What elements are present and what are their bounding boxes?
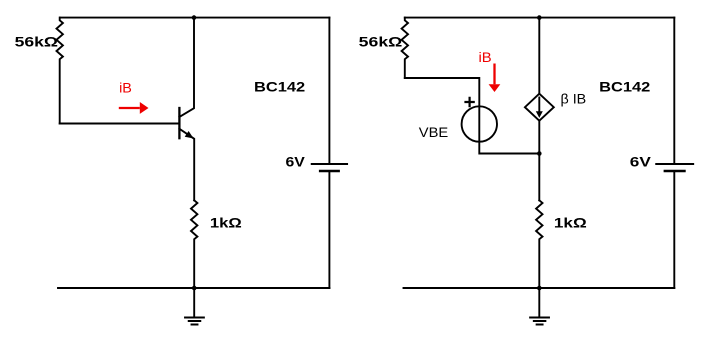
battery V1 bottom lead <box>328 171 330 288</box>
transistor Q1 collector <box>179 18 194 117</box>
plus sign of VBE <box>466 98 474 106</box>
svg-text:6V: 6V <box>286 155 306 171</box>
svg-text:β IB: β IB <box>561 92 587 108</box>
svg-text:1kΩ: 1kΩ <box>210 215 242 231</box>
wire top rail left circuit <box>60 17 329 19</box>
svg-text:1kΩ: 1kΩ <box>554 215 587 231</box>
wire top rail right circuit <box>405 17 675 19</box>
transistor Q1 emitter <box>179 129 194 201</box>
battery V1 6V top lead <box>328 18 330 164</box>
battery V2 long plate <box>656 163 693 165</box>
wire from top rail to dependent source <box>538 18 540 94</box>
node dot VBE/diamond junction <box>537 151 542 156</box>
svg-text:iB: iB <box>119 81 132 97</box>
node dot left collector junction <box>192 15 197 20</box>
battery V2 6V top lead <box>673 18 675 164</box>
resistor R4 1kOhm (right) <box>536 200 542 288</box>
svg-text:6V: 6V <box>630 155 652 171</box>
battery V1 long plate <box>312 163 347 165</box>
voltage source VBE circle <box>462 106 497 141</box>
resistor R3 56kOhm (right) <box>402 18 408 78</box>
svg-text:VBE: VBE <box>419 125 448 141</box>
battery V2 short plate <box>665 170 685 173</box>
wire diamond bottom to junction <box>538 121 540 201</box>
dependent current source diamond (beta IB) <box>525 94 554 121</box>
arrow inside diamond <box>538 98 540 113</box>
transistor Q1 emitter arrowhead <box>185 131 194 139</box>
wire bottom rail right circuit <box>404 287 675 289</box>
transistor Q1 base bar <box>178 108 180 138</box>
node dot left ground junction <box>192 286 197 291</box>
battery V2 bottom lead <box>673 171 675 288</box>
svg-text:iB: iB <box>479 50 492 66</box>
ground (left) <box>185 288 204 325</box>
node dot right ground junction <box>537 286 542 291</box>
red current arrow iB (right, vertical) <box>489 64 501 93</box>
resistor R1 56kOhm (left) <box>57 18 63 124</box>
wire base lead (left) <box>60 123 179 125</box>
wire from R3 to VBE source <box>405 78 540 154</box>
resistor R2 1kOhm (left) <box>191 200 197 288</box>
arrowhead inside diamond <box>536 111 543 118</box>
red current arrow iB (left, horizontal) <box>119 102 149 114</box>
ground (right) <box>530 288 549 325</box>
svg-text:56kΩ: 56kΩ <box>359 35 403 51</box>
svg-text:BC142: BC142 <box>599 80 650 96</box>
battery V1 short plate <box>320 170 338 173</box>
svg-text:BC142: BC142 <box>254 80 305 96</box>
wire bottom rail left circuit <box>58 287 329 289</box>
svg-text:56kΩ: 56kΩ <box>15 35 58 51</box>
node dot right top junction <box>537 15 542 20</box>
